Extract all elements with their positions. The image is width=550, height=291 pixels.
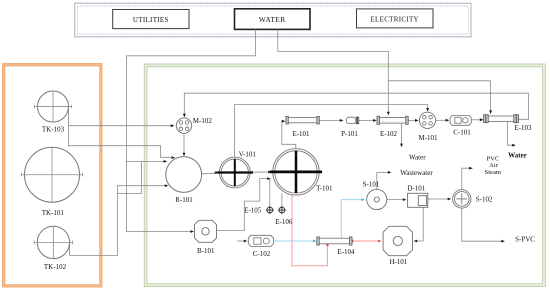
- wire stub junction near R-101: [117, 161, 141, 193]
- svg-text:E-103: E-103: [514, 124, 532, 132]
- PVC Air Steam labels: [485, 155, 502, 176]
- svg-text:H-101: H-101: [389, 258, 407, 266]
- svg-text:E-102: E-102: [380, 130, 398, 138]
- wire T-101 top to E-101: [282, 120, 296, 149]
- svg-text:Steam: Steam: [485, 169, 502, 176]
- svg-text:E-105: E-105: [244, 207, 262, 215]
- svg-text:S-101: S-101: [363, 181, 380, 189]
- dryer D-101: [407, 185, 427, 208]
- box ELECTRICITY: [357, 9, 434, 28]
- wire T-101 to E-104 (hot stream): [292, 195, 329, 266]
- wire S-101 to D-101: [387, 198, 407, 201]
- svg-text:ELECTRICITY: ELECTRICITY: [370, 15, 418, 23]
- wire E-101 to P-101: [319, 119, 343, 122]
- wire E-102 bottom to water outlet: [400, 124, 403, 148]
- svg-text:Water: Water: [508, 151, 527, 159]
- wire TK-103 to M-102: [69, 106, 175, 127]
- compressor C-102: [248, 235, 273, 258]
- motor M-102: [176, 117, 212, 133]
- wastewater outlet label: [400, 169, 433, 177]
- svg-text:C-102: C-102: [253, 250, 271, 258]
- wire E-102 to M-101: [408, 119, 418, 122]
- hot water outlet label: [508, 151, 527, 159]
- S-PVC outlet label: [515, 235, 535, 243]
- svg-text:V-101: V-101: [239, 150, 257, 158]
- tank TK-103: [35, 91, 72, 134]
- tank TK-101: [22, 147, 83, 217]
- wire V-101 to T-101: [250, 171, 271, 174]
- svg-text:P-101: P-101: [341, 130, 358, 138]
- wire TK-102 to R-101 lower-left: [70, 184, 169, 255]
- svg-text:E-106: E-106: [275, 218, 293, 226]
- svg-text:UTILITIES: UTILITIES: [133, 16, 169, 24]
- wire B-101 to T-101: [217, 177, 271, 230]
- wire C-101 to E-103: [472, 118, 484, 121]
- svg-text:E-104: E-104: [337, 248, 355, 256]
- svg-text:WATER: WATER: [259, 15, 286, 24]
- tank T-101: [270, 149, 333, 195]
- wire R-101 to V-101: [201, 171, 218, 174]
- pump B-101: [195, 220, 217, 255]
- wire M-102 to R-101: [183, 133, 186, 156]
- reactor R-101: [166, 157, 202, 204]
- wire E-106 up to T-101: [281, 193, 283, 207]
- pump P-101: [341, 117, 359, 138]
- wire branch to E-103 top: [388, 81, 492, 114]
- vessel V-101: [217, 150, 257, 188]
- svg-text:Air: Air: [489, 162, 499, 169]
- svg-text:M-101: M-101: [418, 134, 438, 142]
- utilities header bar: [75, 3, 471, 37]
- svg-text:B-101: B-101: [197, 247, 215, 255]
- wire E-103 bottom to water outlet: [507, 122, 515, 147]
- svg-text:TK-103: TK-103: [42, 126, 65, 134]
- wire V-101 top to M-101 top: [234, 105, 429, 157]
- svg-text:C-101: C-101: [453, 128, 471, 136]
- wire D-101 bottom to H-101: [414, 207, 424, 242]
- svg-text:E-101: E-101: [292, 130, 310, 138]
- svg-text:TK-101: TK-101: [42, 209, 65, 217]
- wire branch water vertical to R-101 left: [126, 160, 167, 163]
- process subgroup frame (green): [144, 64, 545, 287]
- svg-text:S-102: S-102: [476, 195, 493, 203]
- svg-text:M-102: M-102: [193, 117, 213, 125]
- wire E-103 right to M-102 top: [183, 93, 529, 119]
- compressor C-101: [450, 115, 471, 136]
- wire into C-102: [237, 240, 247, 243]
- wire M-101 to C-101: [436, 119, 450, 122]
- wire C-102 to E-104 (cold stream): [274, 240, 317, 243]
- box WATER: [235, 9, 311, 30]
- wire P-101 to E-102: [359, 119, 377, 122]
- svg-text:S-PVC: S-PVC: [515, 235, 535, 243]
- svg-text:Wastewater: Wastewater: [400, 169, 433, 177]
- wire WATER to E-102 top: [278, 29, 390, 115]
- svg-text:T-101: T-101: [316, 185, 333, 193]
- wire S-102 top to PVC/Air/Steam: [462, 167, 473, 190]
- wire E-104 to S-101 (cooled stream): [341, 198, 365, 237]
- water outlet label: [409, 153, 426, 161]
- heat exchanger E-104: [317, 237, 355, 256]
- svg-text:TK-102: TK-102: [44, 263, 67, 271]
- mill H-101: [383, 226, 412, 266]
- wire S-102 bottom to S-PVC outlet: [462, 208, 505, 242]
- silo S-102: [453, 190, 493, 208]
- wire E-105 up to T-101 junction: [269, 179, 271, 208]
- raw-material subgroup frame (orange): [3, 64, 103, 288]
- wire E-104 to H-101 (hot stream): [351, 240, 382, 243]
- heat exchanger E-103: [484, 115, 532, 132]
- svg-text:R-101: R-101: [175, 196, 193, 204]
- tank TK-102: [34, 226, 72, 271]
- mixer E-106: [275, 206, 293, 226]
- box UTILITIES: [113, 10, 189, 29]
- heat exchanger E-101: [286, 116, 319, 138]
- wire TK-103 branch to R-101 top-left: [69, 126, 176, 159]
- mixer E-105: [244, 206, 274, 215]
- wire D-101 to S-102: [428, 198, 451, 201]
- wire S-101 to wastewater outlet: [377, 171, 392, 189]
- wire WATER to B-101 (drop, left run, long vertical): [126, 29, 255, 233]
- svg-text:Water: Water: [409, 153, 426, 161]
- svg-text:D-101: D-101: [407, 185, 425, 193]
- heat exchanger E-102: [377, 116, 408, 138]
- separator S-101: [363, 181, 387, 210]
- motor mill M-101: [418, 112, 438, 142]
